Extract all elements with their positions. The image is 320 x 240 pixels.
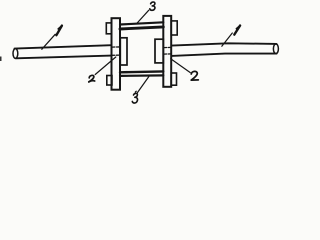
shaft 1 (right) hidden lines inside flange — [164, 46, 171, 48]
leader line to label 2 (right) — [171, 59, 191, 73]
hub boss (right) — [155, 39, 163, 63]
shaft 1 (right) end cap — [273, 44, 278, 54]
nut (right top) — [171, 21, 177, 35]
scan speck at left edge — [0, 57, 2, 62]
leader line to label 3 (bottom) — [138, 77, 149, 93]
leader line to label 2 (left) — [95, 57, 116, 75]
bolt head (left top) — [106, 23, 111, 34]
bolt 3 (bottom bar) top edge — [120, 70, 163, 73]
label 3 (bottom bolt) — [132, 91, 137, 103]
shaft 1 (left) top edge — [15, 45, 112, 48]
shaft 1 (left) bottom edge — [16, 56, 112, 59]
shaft 1 (right) bottom edge — [172, 54, 277, 56]
shaft 1 (left) hidden lines inside flange — [112, 46, 120, 48]
label 1 (right shaft) — [234, 26, 240, 35]
half-coupling flange 2 (left plate) — [112, 18, 121, 90]
label 1 (left shaft) — [56, 26, 62, 36]
half-coupling flange 2 (right plate) — [163, 16, 171, 87]
bolt 3 (top bar) top edge — [120, 22, 163, 24]
bolt 3 (top bar) bottom edge — [120, 27, 163, 29]
label 2 (right half-coupling) — [191, 71, 198, 80]
shaft 1 (left) end cap — [13, 49, 18, 59]
nut (right bottom) — [171, 73, 176, 85]
label 2 (left half-coupling) — [89, 75, 95, 82]
leader line to label 1 (left) — [42, 34, 55, 49]
hub boss (left) — [120, 38, 127, 65]
bolt head (left bottom) — [107, 76, 112, 86]
bolt 3 (bottom bar) bottom edge — [120, 74, 163, 77]
leader line to label 3 (top) — [137, 10, 149, 23]
leader line to label 1 (right) — [222, 33, 233, 46]
label 3 (top bolt) — [150, 2, 155, 10]
shaft 1 (right) top edge — [172, 43, 277, 45]
